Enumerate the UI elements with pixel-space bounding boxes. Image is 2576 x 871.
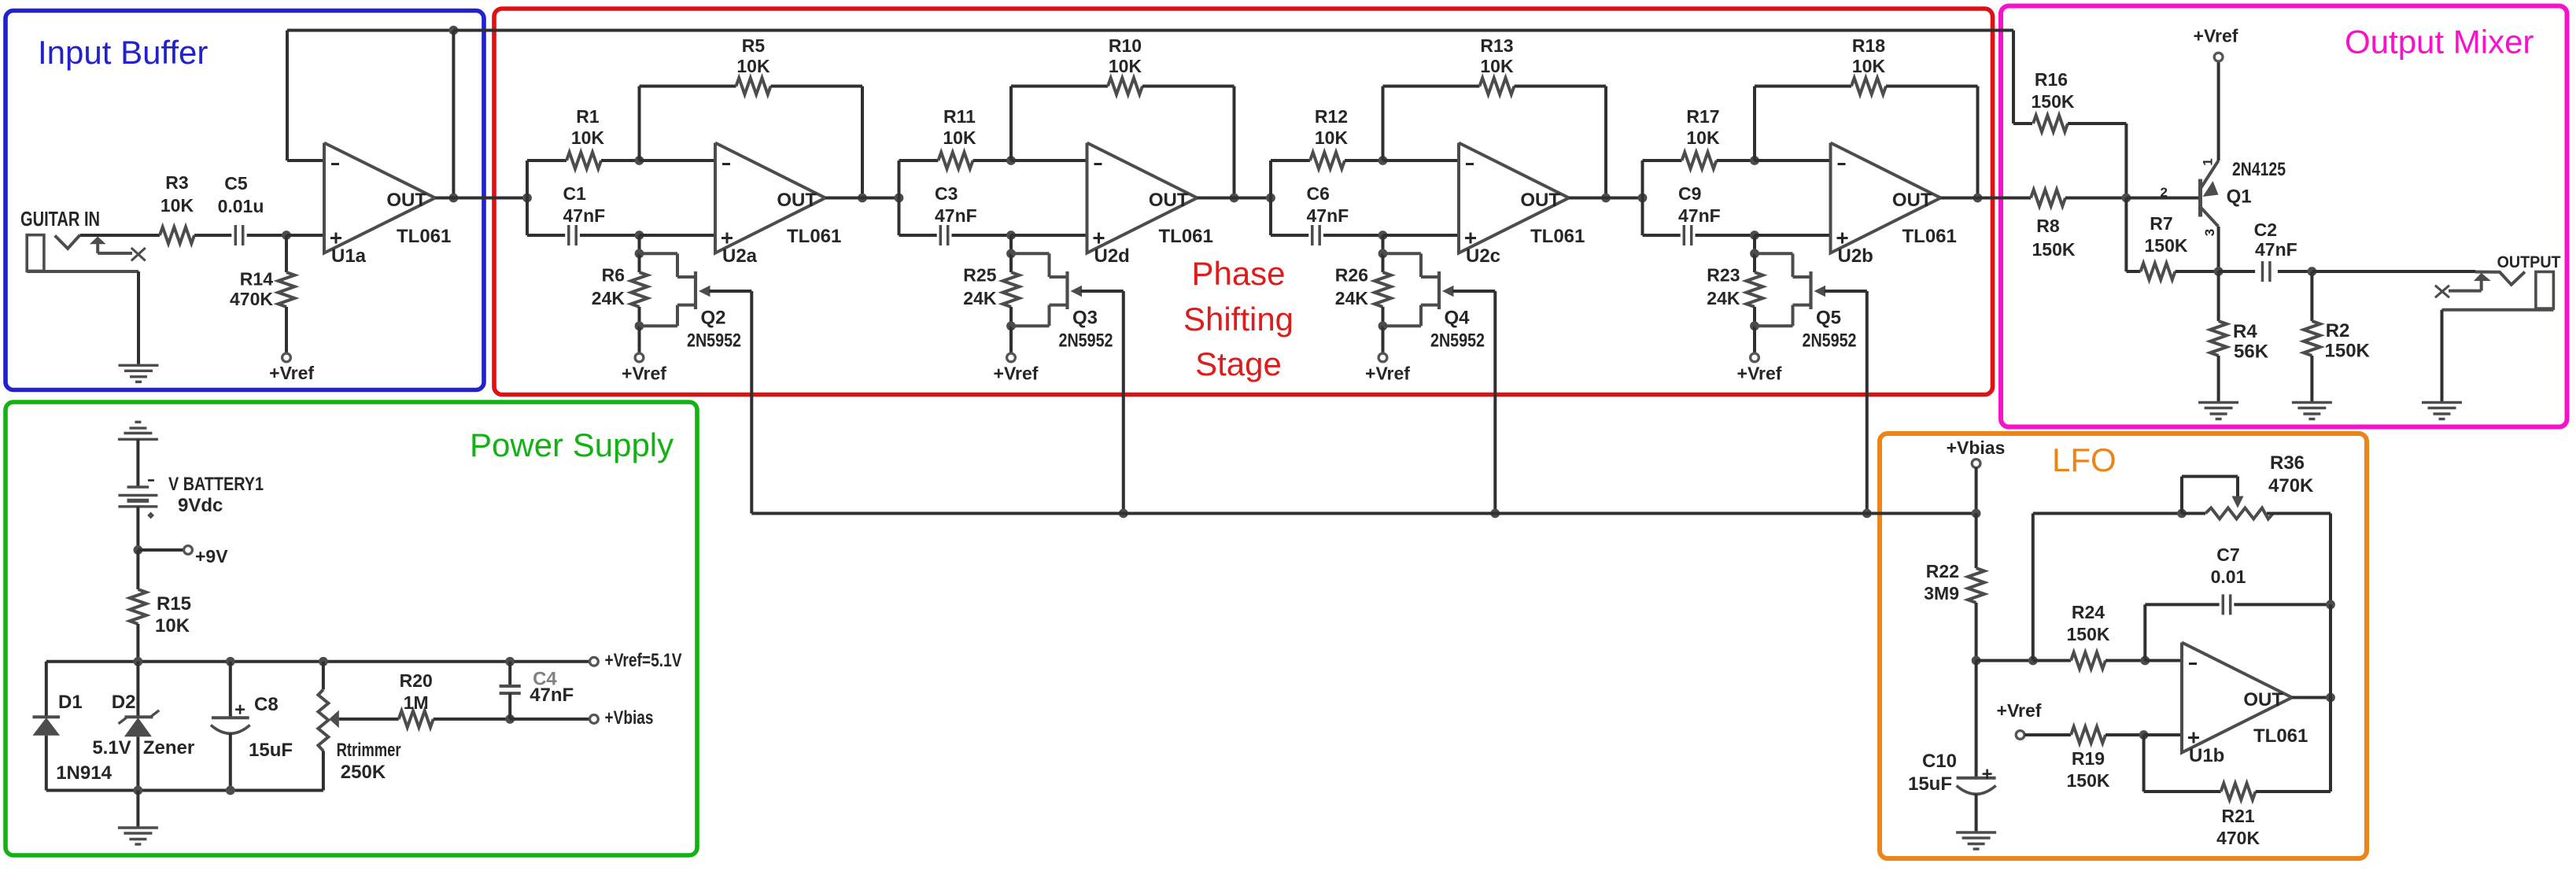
wire R36 to output column — [2329, 514, 2332, 605]
svg-text:Rtrimmer: Rtrimmer — [337, 740, 401, 761]
svg-text:15uF: 15uF — [249, 740, 293, 761]
svg-text:C9: C9 — [1678, 183, 1701, 204]
junction LFO bias node — [1972, 509, 1981, 519]
wire minus node up to C7 — [2145, 604, 2219, 660]
svg-text:2N5952: 2N5952 — [1059, 330, 1113, 352]
wire stage4 input node split — [1641, 161, 1644, 235]
node A junction (R14 tap) — [282, 231, 291, 240]
svg-text:R16: R16 — [2035, 69, 2068, 90]
wire input jack sleeve to ground — [27, 271, 138, 365]
svg-text:TL061: TL061 — [2253, 725, 2308, 747]
resistor R15 — [130, 589, 191, 637]
wire stage4 to R17 — [1643, 159, 1682, 162]
wire output jack sleeve to ground — [2442, 310, 2554, 403]
svg-text:OUT: OUT — [1520, 190, 1560, 211]
capacitor C2 — [2254, 220, 2297, 282]
wire +9V node to R15 — [136, 550, 139, 589]
wire R24 to minus node — [2105, 659, 2145, 662]
resistor R1 — [566, 106, 604, 169]
wire R5 to output column — [771, 87, 863, 198]
svg-text:2: 2 — [2161, 185, 2168, 200]
svg-text:C2: C2 — [2254, 220, 2277, 240]
svg-text:47nF: 47nF — [935, 205, 977, 226]
wire R4 to ground — [2217, 356, 2220, 403]
svg-text:47nF: 47nF — [530, 685, 574, 706]
terminal +Vref (output mixer) — [2194, 26, 2238, 61]
wire C1 to plus node — [580, 234, 640, 237]
svg-text:OUT: OUT — [2243, 689, 2283, 710]
ground output jack — [2422, 403, 2462, 419]
svg-text:LFO: LFO — [2052, 441, 2117, 478]
junction bottom rail / zener column — [134, 786, 143, 795]
trimmer Rtrimmer 250K — [318, 662, 400, 791]
resistor R19 — [2067, 727, 2110, 792]
svg-text:24K: 24K — [592, 288, 626, 308]
wire to stage3 Vref terminal — [1382, 326, 1385, 353]
wire stage2 to C3 — [899, 234, 937, 237]
svg-text:Q2: Q2 — [701, 308, 726, 329]
svg-text:56K: 56K — [2234, 341, 2269, 363]
svg-text:47nF: 47nF — [1307, 205, 1349, 226]
svg-text:R36: R36 — [2270, 452, 2305, 474]
svg-text:C6: C6 — [1307, 183, 1330, 204]
wire dry signal top run to output mixer — [453, 31, 2013, 124]
wire R10 to output column — [1142, 87, 1234, 198]
svg-text:+Vref=5.1V: +Vref=5.1V — [605, 650, 682, 671]
wire plus node to U2a plus input — [640, 234, 716, 237]
wire minus node to U2a minus input — [640, 159, 716, 162]
wire plus node down to R21 — [2144, 735, 2221, 792]
ground (inverted) above battery — [118, 422, 158, 439]
wire R16 down to summing node — [2124, 124, 2128, 198]
wire to stage4 Vref terminal — [1753, 326, 1756, 353]
svg-text:TL061: TL061 — [1530, 226, 1585, 247]
wire plus node down to R25 — [1009, 235, 1013, 253]
svg-text:TL061: TL061 — [787, 226, 841, 247]
svg-text:47nF: 47nF — [563, 205, 606, 226]
wire stage1 to R1 — [527, 159, 566, 162]
svg-text:10K: 10K — [1686, 127, 1720, 148]
wire stage2 input node split — [898, 161, 901, 235]
wire stage1 to C1 — [527, 234, 565, 237]
svg-text:C5: C5 — [224, 173, 248, 194]
ground power supply — [118, 828, 158, 844]
svg-text:U1b: U1b — [2189, 745, 2224, 766]
wire output column down to R21 row — [2329, 604, 2332, 792]
wire R11 to minus node — [973, 159, 1012, 162]
junction C7 output node — [2326, 600, 2335, 610]
svg-text:R24: R24 — [2072, 602, 2105, 622]
svg-text:Q4: Q4 — [1445, 308, 1471, 329]
junction U1b plus node — [2139, 730, 2149, 740]
svg-text:Q3: Q3 — [1072, 308, 1098, 329]
wire integrator node to R24 row — [1976, 659, 2033, 662]
svg-text:U1a: U1a — [331, 245, 367, 267]
wire minus node to U2b minus input — [1755, 159, 1831, 162]
terminal +Vref=5.1V — [590, 650, 682, 671]
svg-text:470K: 470K — [230, 289, 273, 309]
wire minus node to U1b — [2145, 659, 2182, 662]
junction stage3 plus node — [1378, 231, 1388, 240]
wire stage3 input node split — [1269, 161, 1272, 235]
svg-text:U2b: U2b — [1838, 245, 1873, 267]
svg-text:10K: 10K — [1852, 56, 1886, 76]
wire Q4 gate to LFO bus — [1452, 291, 1495, 514]
svg-text:C10: C10 — [1922, 751, 1957, 772]
svg-text:R15: R15 — [157, 593, 191, 614]
wire stage2 output — [1198, 197, 1271, 200]
wire bias node down to R22 — [1975, 514, 1978, 569]
svg-text:10K: 10K — [1480, 56, 1514, 76]
wire plus node to U2b plus input — [1755, 234, 1831, 237]
wire plus node down to R6 — [638, 235, 641, 253]
wire trimmer wiper to R20 — [339, 718, 399, 721]
svg-text:R3: R3 — [165, 172, 188, 193]
wire to stage2 Vref terminal — [1009, 326, 1013, 353]
svg-text:C8: C8 — [254, 694, 279, 715]
resistor R26 — [1335, 253, 1391, 326]
wire C9 to plus node — [1696, 234, 1755, 237]
wire stage1 output — [825, 197, 899, 200]
svg-text:R10: R10 — [1109, 35, 1142, 56]
wire plus node to U1b — [2144, 733, 2182, 736]
svg-text:2N5952: 2N5952 — [1803, 330, 1857, 352]
svg-text:2N5952: 2N5952 — [1430, 330, 1485, 352]
diode D1 1N914 — [33, 692, 113, 784]
junction R25 top — [1006, 249, 1016, 258]
svg-text:150K: 150K — [2032, 239, 2076, 260]
svg-text:47nF: 47nF — [2255, 239, 2297, 260]
junction bottom rail / C8 column — [226, 786, 235, 795]
resistor R12 — [1310, 106, 1348, 169]
svg-text:Shifting: Shifting — [1183, 301, 1294, 338]
junction Vref rail / zener column — [134, 657, 143, 666]
wire ground to battery — [136, 439, 139, 487]
junction stage3 output node — [1601, 194, 1611, 203]
svg-text:150K: 150K — [2032, 91, 2075, 112]
svg-text:R19: R19 — [2072, 748, 2105, 769]
transistor Q2 (JFET) — [640, 253, 742, 351]
svg-text:OUT: OUT — [1892, 190, 1932, 211]
svg-text:U2c: U2c — [1466, 245, 1500, 267]
wire feedback top run to output column — [287, 29, 453, 32]
wire output node to output jack — [2312, 270, 2475, 273]
svg-text:150K: 150K — [2145, 235, 2188, 256]
op-amp U2c — [1459, 143, 1585, 268]
svg-text:24K: 24K — [1335, 288, 1369, 308]
svg-text:TL061: TL061 — [397, 226, 451, 247]
transistor Q1 (PNP 2N4125) — [2201, 159, 2286, 227]
junction stage4 minus node — [1750, 156, 1759, 165]
junction U1b output node — [2326, 693, 2335, 703]
resistor R4 — [2210, 321, 2269, 363]
wire D2 to bottom rail — [136, 736, 139, 790]
svg-text:Stage: Stage — [1195, 345, 1282, 382]
svg-text:R12: R12 — [1315, 106, 1348, 127]
wire left rail down (D1 branch) — [45, 662, 48, 718]
wire plus node down to R26 — [1382, 235, 1385, 253]
resistor R11 — [939, 106, 976, 169]
ground R2 — [2292, 403, 2332, 419]
svg-text:2N4125: 2N4125 — [2232, 159, 2286, 180]
wire R21 to output column — [2256, 790, 2331, 793]
wire C6 to plus node — [1323, 234, 1383, 237]
resistor R20 — [399, 670, 434, 727]
svg-text:+Vref: +Vref — [1997, 700, 2042, 721]
input jack switch cross x — [131, 248, 146, 260]
title Output Mixer — [2345, 24, 2534, 61]
resistor R6 — [592, 253, 648, 326]
svg-text:2N5952: 2N5952 — [687, 330, 741, 352]
wire stage1 input node split — [526, 161, 529, 235]
wire feedback to R13 — [1383, 85, 1480, 88]
svg-text:470K: 470K — [2216, 828, 2260, 848]
svg-text:U2a: U2a — [722, 245, 758, 267]
svg-text:47nF: 47nF — [1678, 205, 1721, 226]
svg-text:150K: 150K — [2067, 770, 2110, 791]
junction top feedback node — [449, 26, 459, 35]
wire stage3 to R12 — [1271, 159, 1310, 162]
wire plus node to U2d plus input — [1011, 234, 1087, 237]
section box Input Buffer — [6, 11, 484, 390]
svg-text:R23: R23 — [1707, 265, 1740, 286]
ground R4 — [2198, 403, 2238, 419]
label Q1 base pin 2 — [2161, 185, 2168, 200]
svg-text:+Vref: +Vref — [1737, 364, 1782, 384]
resistor R8 — [1978, 190, 2127, 260]
svg-text:R13: R13 — [1480, 35, 1513, 56]
wire C2 to output node — [2278, 270, 2312, 273]
capacitor C6 — [1307, 183, 1349, 245]
transistor Q4 (JFET) — [1383, 253, 1485, 351]
wire +Vbias terminal down — [1975, 467, 1978, 514]
svg-text:R4: R4 — [2233, 321, 2257, 342]
transistor Q3 (JFET) — [1011, 253, 1113, 351]
svg-text:R14: R14 — [240, 268, 273, 289]
svg-text:150K: 150K — [2067, 624, 2110, 644]
junction summing node (Q1 base) — [2122, 194, 2131, 203]
svg-text:10K: 10K — [1315, 127, 1349, 148]
wire stage1 feedback up — [638, 87, 641, 161]
capacitor C1 — [563, 183, 606, 245]
junction stage1 minus node — [635, 156, 644, 165]
svg-text:24K: 24K — [1707, 288, 1740, 308]
junction R26 top — [1378, 249, 1388, 258]
title Power Supply — [470, 426, 674, 463]
terminal +Vbias (power supply) — [590, 707, 654, 729]
junction Vref rail / C8 column — [226, 657, 235, 666]
section box Power Supply — [6, 402, 697, 855]
capacitor C9 — [1678, 183, 1721, 245]
wire U1b output — [2292, 696, 2331, 699]
battery V BATTERY1 9Vdc — [118, 474, 264, 519]
svg-text:10K: 10K — [161, 195, 194, 216]
wire R17 to minus node — [1717, 159, 1755, 162]
output jack OUTPUT — [2475, 253, 2561, 308]
section box LFO — [1880, 434, 2367, 858]
svg-text:10K: 10K — [943, 127, 976, 148]
svg-text:3: 3 — [2202, 229, 2217, 236]
junction R23 top — [1750, 249, 1759, 258]
svg-text:0.01: 0.01 — [2211, 567, 2246, 587]
diode D2 Zener 5.1V — [92, 692, 194, 758]
ground LFO — [1956, 832, 1996, 849]
svg-text:D1: D1 — [58, 692, 83, 713]
terminal +Vref stage1 — [622, 353, 666, 383]
svg-text:Output Mixer: Output Mixer — [2345, 24, 2534, 61]
svg-text:D2: D2 — [112, 692, 136, 713]
svg-text:Q5: Q5 — [1816, 308, 1841, 329]
svg-text:3M9: 3M9 — [1924, 583, 1959, 603]
wire node A to U1a plus input — [286, 234, 324, 237]
junction gate bus stage3 — [1490, 509, 1500, 519]
svg-text:Zener: Zener — [143, 737, 194, 758]
capacitor C3 — [935, 183, 977, 245]
svg-text:C7: C7 — [2216, 544, 2239, 565]
svg-text:470K: 470K — [2268, 475, 2314, 496]
junction R36 left node — [2177, 509, 2187, 519]
svg-text:15uF: 15uF — [1908, 773, 1952, 795]
wire zener column to ground — [136, 791, 139, 829]
svg-text:9Vdc: 9Vdc — [178, 495, 223, 516]
wire U1a output to stage1 input — [435, 197, 527, 200]
svg-text:0.01u: 0.01u — [218, 196, 264, 216]
capacitor C7 0.01 — [2211, 544, 2246, 614]
svg-text:Q1: Q1 — [2227, 186, 2252, 208]
wire R12 to minus node — [1345, 159, 1383, 162]
resistor R7 — [2126, 213, 2218, 280]
junction stage4 output node — [1973, 194, 1983, 203]
wire C3 to plus node — [952, 234, 1012, 237]
junction stage1 plus node — [635, 231, 644, 240]
resistor R17 — [1682, 106, 1720, 169]
wire U1a minus input to feedback corner — [287, 31, 324, 161]
svg-text:V BATTERY1: V BATTERY1 — [168, 474, 264, 495]
title Input Buffer — [38, 34, 208, 71]
wire R1 to minus node — [601, 159, 640, 162]
wire bottom rail — [46, 789, 323, 792]
wire minus node to U2d minus input — [1011, 159, 1087, 162]
wire stage4 output — [1941, 197, 2015, 200]
wire D2 column from rail — [136, 662, 139, 718]
title LFO — [2052, 441, 2117, 478]
wire feedback to R10 — [1011, 85, 1108, 88]
svg-text:10K: 10K — [155, 615, 190, 637]
svg-text:R11: R11 — [943, 106, 976, 127]
svg-text:R21: R21 — [2221, 806, 2254, 826]
wire Q2 gate to LFO bus — [709, 291, 751, 514]
terminal +Vref (input buffer) — [269, 353, 314, 383]
svg-text:R1: R1 — [576, 106, 600, 127]
junction Vref rail / trimmer column — [319, 657, 328, 666]
wire R14 to Vref terminal — [285, 307, 288, 353]
wire Q1 collector down — [2217, 227, 2220, 271]
capacitor C8 15uF (electrolytic) — [211, 662, 293, 791]
svg-text:U2d: U2d — [1094, 245, 1130, 267]
resistor R24 — [2067, 602, 2110, 669]
node stage4 input — [1638, 194, 1648, 203]
wire R2 to ground — [2310, 356, 2313, 403]
svg-text:+Vref: +Vref — [1365, 364, 1410, 384]
resistor R3 — [160, 172, 194, 244]
svg-text:R6: R6 — [602, 265, 625, 286]
node stage1 input — [522, 194, 532, 203]
wire Q3 gate to LFO bus — [1081, 291, 1124, 514]
wire R20 to Vbias node — [434, 718, 511, 721]
junction integrator node — [1972, 656, 1981, 666]
svg-text:OUT: OUT — [1149, 190, 1189, 211]
wire R24 to minus corner — [2033, 659, 2071, 662]
transistor Q5 (JFET) — [1755, 253, 1857, 351]
svg-text:TL061: TL061 — [1159, 226, 1213, 247]
wire LFO bus to JFET gates — [751, 512, 1976, 515]
svg-text:TL061: TL061 — [1902, 226, 1957, 247]
wire C5 to node A — [247, 234, 286, 237]
output jack tip arrow — [2449, 273, 2491, 291]
input jack GUITAR IN — [20, 207, 100, 271]
svg-text:OUT: OUT — [386, 190, 426, 211]
trimmer R36 470K — [2182, 452, 2331, 519]
svg-text:R20: R20 — [400, 670, 433, 691]
wire jack to R3 — [80, 234, 160, 237]
wire stage3 output — [1569, 197, 1643, 200]
terminal +Vref (LFO) — [1997, 700, 2042, 739]
input jack tip arrow — [90, 237, 132, 253]
wire node A down to R14 — [285, 235, 288, 272]
svg-text:10K: 10K — [736, 56, 770, 76]
junction gate bus stage4 — [1862, 509, 1872, 519]
svg-text:150K: 150K — [2325, 341, 2371, 362]
junction +9V node — [134, 545, 143, 555]
terminal +Vref stage4 — [1737, 353, 1782, 383]
junction stage2 output node — [1230, 194, 1239, 203]
svg-text:R26: R26 — [1335, 265, 1368, 286]
wire summing node to Q1 base — [2126, 197, 2198, 200]
wire to stage1 Vref terminal — [638, 326, 641, 353]
wire stage3 feedback up — [1382, 87, 1385, 161]
junction Q1 collector node — [2214, 267, 2224, 276]
wire battery to +9V node — [136, 507, 139, 550]
wire stage4 to C9 — [1643, 234, 1681, 237]
svg-text:Input Buffer: Input Buffer — [38, 34, 208, 71]
svg-text:R8: R8 — [2036, 216, 2060, 236]
resistor R13 — [1480, 35, 1515, 94]
junction R6 top — [635, 249, 644, 258]
wire output column vertical — [452, 31, 455, 198]
wire R3 to C5 — [194, 234, 231, 237]
wire collector node to C2 — [2219, 270, 2256, 273]
wire stage2 feedback up — [1009, 87, 1013, 161]
resistor R18 — [1851, 35, 1886, 94]
svg-text:Power Supply: Power Supply — [470, 426, 674, 463]
wire feedback to R18 — [1755, 85, 1851, 88]
output jack switch cross x — [2435, 286, 2449, 298]
svg-text:C1: C1 — [563, 183, 587, 204]
resistor R16 — [2013, 69, 2126, 132]
junction R6 bottom — [635, 321, 644, 330]
wire stage4 feedback up — [1753, 87, 1756, 161]
svg-text:10K: 10K — [571, 127, 605, 148]
junction R24 row / feedback corner — [2028, 656, 2038, 666]
junction U1b minus node — [2140, 656, 2150, 666]
junction stage4 plus node — [1750, 231, 1759, 240]
wire C7 to output column — [2234, 603, 2331, 606]
svg-text:24K: 24K — [963, 288, 997, 308]
svg-text:C3: C3 — [935, 183, 958, 204]
svg-text:R18: R18 — [1852, 35, 1885, 56]
terminal +Vref stage3 — [1365, 353, 1410, 383]
svg-text:Phase: Phase — [1191, 255, 1285, 292]
